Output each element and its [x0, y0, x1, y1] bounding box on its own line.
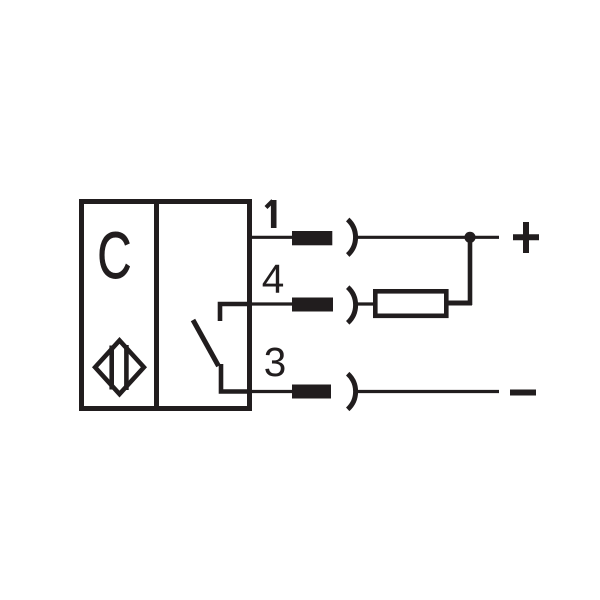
wire resistor to vertical riser	[446, 301, 472, 306]
plus terminal (+)	[513, 234, 539, 240]
capacitive symbol plate left	[109, 346, 114, 390]
sensor body outline U1	[82, 202, 250, 409]
switch S1 blade	[193, 320, 219, 366]
connector arc pin 1	[348, 220, 356, 256]
svg-text:3: 3	[264, 339, 287, 385]
load resistor R1	[375, 291, 446, 316]
wire pin1 from body	[250, 236, 295, 239]
connector arc pin 3	[348, 374, 356, 410]
vertical riser wire to junction	[468, 237, 473, 305]
capacitive symbol plate right	[124, 345, 129, 390]
cable lead pin 4 (black bar)	[292, 298, 333, 312]
switch S1 bottom contact (to pin 3)	[221, 364, 252, 392]
svg-text:4: 4	[262, 256, 285, 302]
svg-text:C: C	[97, 219, 131, 292]
switch S1 top contact (from pin 4)	[220, 304, 252, 321]
wire pin3 from body	[250, 390, 295, 393]
junction node dot	[464, 232, 475, 243]
wire arc to resistor	[356, 302, 376, 305]
connector arc pin 4	[348, 287, 356, 323]
pin label 1	[271, 200, 277, 228]
capacitive sensor symbol (diamond)	[95, 340, 144, 394]
wire pin3 to minus	[356, 390, 499, 393]
cable lead pin 1 (black bar)	[292, 231, 332, 245]
wire pin1 to junction and plus	[356, 236, 499, 239]
cable lead pin 3 (black bar)	[292, 385, 331, 399]
wire pin4 from body	[250, 302, 295, 305]
sensor body divider	[154, 202, 159, 409]
minus terminal (-)	[510, 390, 536, 396]
